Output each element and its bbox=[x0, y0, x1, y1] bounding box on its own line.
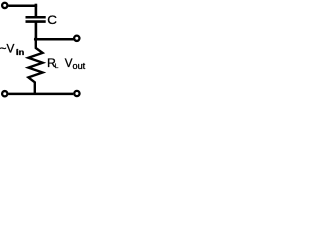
svg-text:~V: ~V bbox=[0, 41, 14, 55]
ground terminal bottom-left bbox=[2, 91, 7, 96]
resistor RL zigzag bbox=[28, 39, 42, 94]
wire top horizontal bbox=[8, 4, 37, 7]
svg-text:out: out bbox=[73, 61, 86, 71]
wire bottom horizontal bbox=[8, 93, 73, 96]
capacitor C bottom plate bbox=[26, 20, 46, 23]
ground terminal bottom-right bbox=[74, 91, 79, 96]
input terminal top-left bbox=[2, 3, 7, 8]
capacitor C top plate bbox=[26, 16, 46, 19]
wire vertical to capacitor bbox=[35, 4, 38, 17]
svg-text:L: L bbox=[55, 63, 59, 70]
wire vertical capacitor to junction bbox=[35, 22, 38, 41]
output terminal top-right bbox=[74, 36, 79, 41]
label ~Vin : i-bar fill bbox=[16, 49, 17, 55]
node junction dot bbox=[34, 37, 38, 41]
svg-text:C: C bbox=[47, 13, 57, 27]
wire output horizontal bbox=[36, 38, 74, 41]
